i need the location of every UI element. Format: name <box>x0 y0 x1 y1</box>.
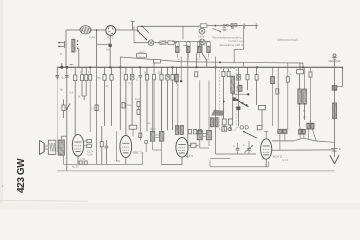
svg-text:N: N <box>60 52 62 56</box>
svg-text:C: C <box>233 145 235 148</box>
svg-text:150: 150 <box>197 59 200 61</box>
svg-text:C: C <box>243 144 245 147</box>
svg-text:0,1: 0,1 <box>129 81 133 85</box>
svg-text:110: 110 <box>177 59 180 61</box>
svg-text:E: E <box>339 147 341 151</box>
svg-text:S: S <box>139 32 141 36</box>
svg-text:50: 50 <box>98 76 101 80</box>
svg-text:0,1A: 0,1A <box>89 35 95 39</box>
svg-text:an: an <box>148 122 151 125</box>
svg-text:16µ: 16µ <box>106 48 111 52</box>
svg-text:C: C <box>136 77 138 81</box>
svg-text:ECH 11: ECH 11 <box>273 154 283 158</box>
svg-text:50: 50 <box>158 70 161 74</box>
svg-text:EBC 3: EBC 3 <box>133 150 142 154</box>
svg-text:5n: 5n <box>62 76 65 80</box>
svg-text:423 GW: 423 GW <box>16 158 27 193</box>
svg-text:Netzanschluß: Netzanschluß <box>277 38 298 42</box>
svg-text:E F 9: E F 9 <box>186 154 193 158</box>
svg-text:0,5: 0,5 <box>70 91 74 95</box>
svg-text:8µ: 8µ <box>60 88 63 92</box>
svg-text:Einstellung 220 V: Einstellung 220 V <box>220 43 243 47</box>
svg-text:0,1: 0,1 <box>90 106 94 110</box>
svg-text:m 13: m 13 <box>282 158 288 162</box>
svg-text:220V~: 220V~ <box>198 34 206 38</box>
svg-text:10n: 10n <box>135 97 140 101</box>
svg-text:0,2A: 0,2A <box>87 153 93 157</box>
svg-text:u 50: u 50 <box>80 157 86 161</box>
svg-text:10µ: 10µ <box>127 103 132 107</box>
svg-text:4µ 50: 4µ 50 <box>72 164 79 168</box>
svg-text:1kΩ: 1kΩ <box>138 50 144 54</box>
svg-text:1.: 1. <box>2 184 5 188</box>
svg-text:5kHz: 5kHz <box>150 127 156 130</box>
